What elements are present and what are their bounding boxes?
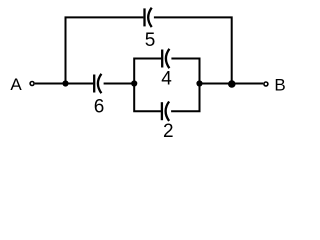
svg-text:4: 4 (161, 69, 172, 90)
svg-text:5: 5 (145, 30, 156, 51)
svg-text:6: 6 (94, 96, 105, 117)
svg-text:2: 2 (163, 121, 174, 142)
svg-text:A: A (10, 75, 22, 94)
svg-text:B: B (274, 76, 285, 95)
